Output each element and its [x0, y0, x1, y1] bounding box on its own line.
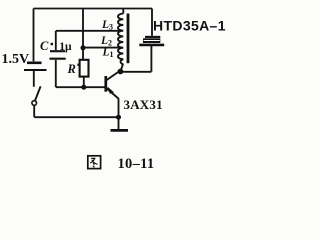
wire buzzer top corner — [151, 9, 153, 36]
battery B1 1.5V — [24, 63, 47, 70]
wire capacitor top stem — [55, 31, 57, 50]
switch S contact circle — [32, 101, 37, 106]
wire battery bottom stem — [33, 71, 35, 87]
wire bottom rail — [34, 116, 118, 118]
resistor R body — [80, 60, 89, 77]
wire tap L2-L1 — [83, 47, 123, 49]
junction dot tap L2-L1 — [81, 45, 86, 50]
wire bias rail vertical — [82, 9, 84, 60]
wire buzzer bottom stem — [150, 46, 152, 72]
paper background — [0, 0, 229, 179]
inductor windings L3 L2 L1 — [118, 14, 123, 65]
junction dot base node — [81, 85, 86, 90]
wire resistor bottom stem — [83, 77, 85, 88]
caption character tu (figure) — [88, 156, 101, 169]
polarity mark capacitor — [51, 43, 53, 45]
wire battery top stem — [33, 9, 35, 62]
wire top rail — [34, 8, 153, 10]
transformer core — [127, 14, 130, 64]
wire switch bottom stem — [33, 105, 35, 117]
svg-text:10–11: 10–11 — [118, 156, 155, 172]
svg-text:C: C — [40, 39, 49, 53]
transistor Q1 3AX31 — [106, 71, 120, 117]
wire capacitor bottom stem — [55, 60, 57, 87]
ground terminal — [111, 117, 129, 130]
piezo buzzer HTD35A-1 — [139, 37, 164, 45]
footnote mark resistor — [77, 64, 79, 66]
junction dot collector node — [118, 69, 124, 75]
wire coil bottom to collector node — [121, 64, 123, 71]
switch S lever — [35, 86, 41, 100]
capacitor C 1u — [50, 51, 66, 59]
svg-text:3AX31: 3AX31 — [124, 97, 163, 112]
junction dot emitter/ground — [116, 115, 121, 120]
wire collector node to buzzer — [120, 71, 151, 73]
svg-text:R: R — [67, 62, 76, 76]
wire tap L3-L2 to capacitor — [56, 30, 123, 32]
svg-text:1.5V: 1.5V — [2, 52, 30, 67]
svg-text:1μ: 1μ — [59, 41, 72, 53]
svg-text:HTD35A–1: HTD35A–1 — [153, 17, 226, 33]
wire base — [56, 86, 105, 88]
wire coil top corner — [122, 9, 124, 14]
